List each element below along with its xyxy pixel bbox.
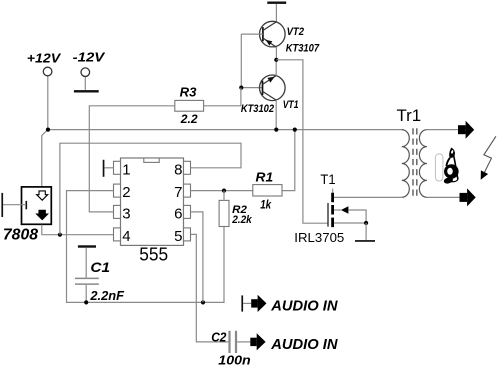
- terminal pin 1 bar: [103, 160, 105, 177]
- wire pin 1: [104, 167, 113, 169]
- rail bar top (VT2 collector rail): [267, 2, 286, 4]
- svg-text:2: 2: [122, 184, 130, 201]
- wire pin 7 to R1: [191, 190, 253, 192]
- svg-text:2.2k: 2.2k: [231, 214, 252, 226]
- transistor VT2: [260, 21, 286, 60]
- node VT1 collector on rail: [274, 128, 278, 132]
- wire AUDIO top: [243, 302, 251, 304]
- svg-text:7: 7: [174, 184, 182, 201]
- svg-text:R3: R3: [180, 86, 197, 100]
- svg-text:C2: C2: [211, 330, 226, 344]
- resistor R3: [175, 100, 204, 111]
- svg-text:2.2: 2.2: [180, 112, 198, 126]
- arrow output top: [458, 121, 474, 139]
- wire pin 5 to C2: [191, 234, 229, 342]
- node emitter junction: [274, 58, 278, 62]
- wire C2 to arrow: [237, 341, 250, 343]
- svg-text:AUDIO IN: AUDIO IN: [270, 297, 338, 314]
- transformer core: [412, 128, 414, 199]
- wire secondary bottom: [427, 196, 460, 198]
- node +12V stem on rail: [46, 128, 50, 132]
- wire VT2 base wire: [241, 33, 263, 35]
- wire VT1 base wire: [241, 87, 262, 89]
- wire Vcc loop pin 8: [60, 143, 241, 235]
- svg-text:6: 6: [174, 206, 182, 223]
- wire emitter node to gate drop: [276, 60, 328, 223]
- treble clef: [443, 148, 459, 185]
- wire main +12V rail: [48, 129, 404, 131]
- terminal AUDIO IN top bar: [241, 295, 243, 311]
- svg-text:AUDIO IN: AUDIO IN: [270, 336, 338, 353]
- wire jog from rail to 7808 input: [42, 130, 48, 187]
- arrow output bottom: [460, 188, 476, 206]
- svg-text:3: 3: [122, 206, 130, 223]
- svg-text:IRL3705: IRL3705: [294, 230, 344, 245]
- speaker card: [435, 154, 443, 181]
- wire secondary top: [427, 129, 458, 131]
- transformer Tr1 primary: [402, 130, 410, 198]
- svg-text:Tr1: Tr1: [397, 106, 422, 125]
- wire top bar to VT2 collector: [275, 4, 277, 22]
- svg-text:-12V: -12V: [73, 50, 106, 65]
- wire R3 right lead to base node: [204, 88, 241, 106]
- wire R2 top lead: [223, 191, 225, 201]
- svg-text:7808: 7808: [3, 227, 38, 244]
- transistor VT1: [260, 60, 286, 130]
- wire R3 left lead to pin 3: [89, 106, 175, 212]
- svg-text:T1: T1: [320, 172, 335, 187]
- capacitor C1: [75, 245, 99, 302]
- capacitor C2: [230, 331, 237, 353]
- lightning arrow: [481, 136, 496, 180]
- svg-text:+12V: +12V: [27, 51, 62, 66]
- node R2 top junction: [222, 189, 226, 193]
- svg-text:4: 4: [122, 228, 130, 245]
- transformer Tr1 secondary: [419, 130, 426, 198]
- node R1 rail junction: [293, 128, 297, 132]
- wire pin 2 loop: [67, 191, 225, 303]
- node Vcc loop junction: [58, 233, 62, 237]
- svg-text:KT3102: KT3102: [241, 103, 274, 115]
- ground T1: [365, 223, 367, 240]
- arrow AUDIO IN top: [251, 295, 266, 312]
- svg-text:555: 555: [139, 244, 168, 265]
- IC U1 555: [114, 158, 191, 245]
- wire base vertical: [240, 34, 242, 88]
- regulator U2 7808: [22, 187, 52, 224]
- wire -12V stem: [84, 77, 86, 90]
- rail bar -12V: [74, 90, 99, 92]
- wire +12V stem: [47, 76, 49, 130]
- node base junction: [239, 86, 243, 90]
- node source junction: [364, 221, 368, 225]
- wire 7808 output to pin 4: [42, 225, 114, 235]
- terminal -12V: [81, 68, 90, 77]
- svg-text:KT3107: KT3107: [286, 43, 320, 55]
- svg-text:1k: 1k: [260, 198, 272, 212]
- terminal +12V: [43, 67, 52, 76]
- wire R1 right lead riser: [282, 130, 295, 191]
- transistor T1 MOSFET: [328, 189, 366, 228]
- node C1 junction: [84, 300, 88, 304]
- resistor R2: [219, 200, 229, 226]
- svg-text:VT2: VT2: [287, 26, 304, 38]
- svg-text:R1: R1: [256, 169, 274, 184]
- node pin 6 junction: [201, 300, 205, 304]
- svg-text:C1: C1: [90, 260, 110, 275]
- wire 7808 input: [3, 204, 26, 206]
- svg-text:8: 8: [174, 161, 182, 178]
- svg-text:1: 1: [122, 161, 130, 178]
- terminal 7808 input bar: [1, 193, 3, 217]
- svg-text:VT1: VT1: [283, 99, 299, 111]
- wire T1 drain to transformer: [334, 196, 402, 198]
- svg-text:2.2nF: 2.2nF: [89, 289, 124, 303]
- wire pin 6 drop: [191, 212, 203, 303]
- resistor R1: [253, 185, 282, 196]
- svg-text:5: 5: [174, 228, 182, 245]
- wire T1 source: [334, 222, 366, 224]
- svg-text:100n: 100n: [218, 353, 250, 368]
- arrow AUDIO IN bottom: [250, 333, 265, 350]
